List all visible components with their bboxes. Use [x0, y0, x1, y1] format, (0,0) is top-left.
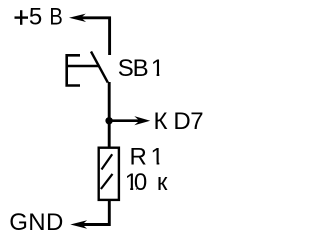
svg-text:0: 0 — [134, 169, 147, 196]
svg-text:SB: SB — [118, 55, 148, 82]
svg-text:В: В — [49, 4, 62, 31]
svg-text:5: 5 — [29, 4, 42, 31]
svg-text:1: 1 — [151, 55, 164, 82]
svg-text:R: R — [130, 144, 147, 171]
svg-text:GND: GND — [9, 209, 64, 236]
svg-text:К D7: К D7 — [154, 108, 204, 135]
svg-text:к: к — [157, 169, 168, 196]
svg-text:1: 1 — [151, 144, 164, 171]
